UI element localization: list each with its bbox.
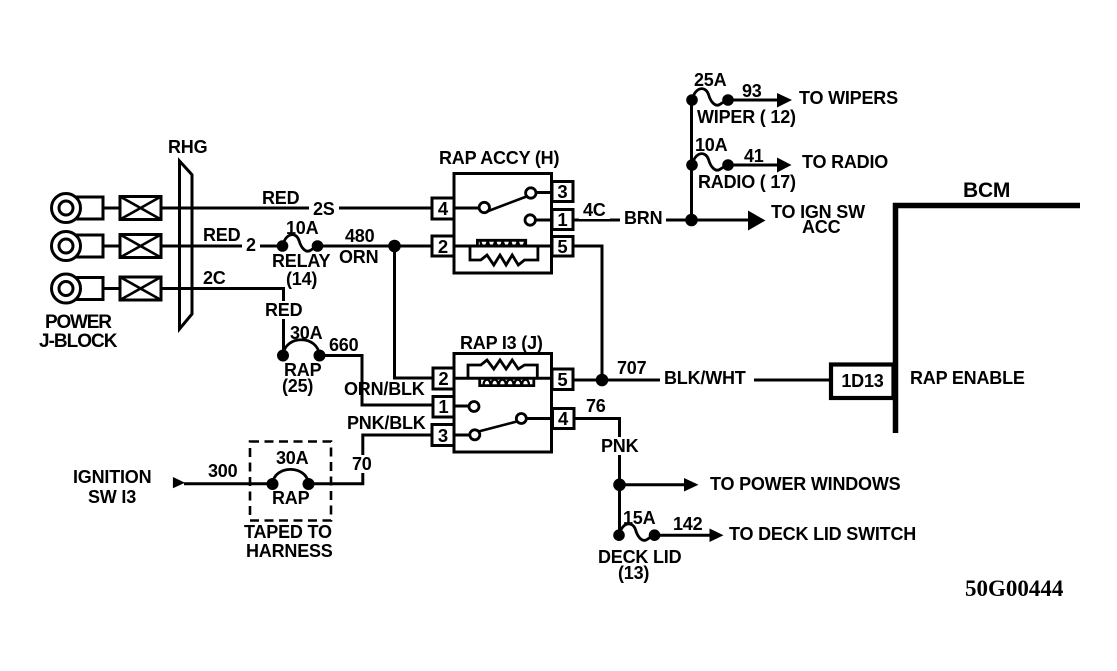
wire junction down to RAP I3 pin 2 <box>395 246 435 378</box>
label TO IGN SW ACC <box>771 203 865 221</box>
wire label RED (row 2) <box>203 226 240 244</box>
wire 93 and arrow to wipers <box>728 93 792 108</box>
fuse value 30A (taped) <box>276 449 308 467</box>
circuit label 2S <box>309 200 339 218</box>
pin 3 box of RAP I3 <box>432 425 454 446</box>
fuse name RAP (25) <box>284 361 321 379</box>
relay RAP I3 (J) outer box <box>454 354 552 453</box>
fuse value 10A (radio) <box>695 136 727 154</box>
circuit label 707 <box>617 359 646 377</box>
module label BCM <box>963 182 1010 200</box>
pin number 3 of RAP I3 <box>432 427 454 446</box>
ring terminal 3 of POWER J-BLOCK <box>52 274 104 303</box>
wire label PNK/BLK <box>347 414 426 432</box>
ring terminal 1 of POWER J-BLOCK <box>52 194 104 223</box>
connector RHG (parallelogram) <box>180 161 193 329</box>
wire 660 ORN/BLK: fuse to RAP I3 pin 1 <box>320 356 435 406</box>
splice S3 (crossed box) <box>120 277 161 300</box>
label IGNITION SW I3 <box>73 468 151 486</box>
pin 3 box of RAP ACCY <box>552 182 573 202</box>
wire label ORN <box>339 248 378 266</box>
fuse value 30A <box>290 324 322 342</box>
wire RED 2S: splice1 to RAP ACCY pin 4 <box>161 207 433 210</box>
relay name RAP ACCY (H) <box>439 149 559 167</box>
wire 707 BLK/WHT: RAP I3 pin 5 to 1D13 <box>573 379 831 382</box>
circuit label 300 <box>208 462 237 480</box>
pin 2 box of RAP ACCY <box>432 236 454 256</box>
wire label PNK <box>597 437 642 455</box>
wire RED 2: splice2 to fuse RELAY <box>161 245 283 248</box>
fuse 10A RELAY (14) <box>278 235 322 252</box>
circuit label 2C <box>203 269 226 287</box>
node junction PNK <box>615 480 625 490</box>
circuit label 660 <box>329 336 358 354</box>
relay coil and resistor inside RAP ACCY <box>454 240 552 265</box>
wire 480 ORN: fuse to RAP ACCY pin 2 <box>318 245 434 248</box>
circuit label 70 <box>348 455 376 473</box>
switch contacts inside RAP I3 <box>454 402 553 440</box>
fuse value 25A <box>694 71 726 89</box>
ignition feed arrow <box>173 477 185 488</box>
fuse 25A WIPER (12) <box>688 89 733 106</box>
wire label RED (row 1) <box>262 189 299 207</box>
label TO RADIO <box>802 153 888 171</box>
figure number 50G00444 <box>965 580 1063 598</box>
pin number 2 of RAP ACCY <box>432 238 454 257</box>
wire ring1 to splice1 <box>103 207 120 210</box>
wire RAP ACCY pin 5 down to 707 node <box>573 246 602 380</box>
fuse name RELAY (14) <box>272 252 330 270</box>
relay name RAP I3 (J) <box>460 334 543 352</box>
circuit label 4C <box>579 201 610 219</box>
fuse name WIPER (12) <box>697 108 796 126</box>
label TO DECK LID SWITCH <box>729 525 916 543</box>
label POWER J-BLOCK <box>45 314 111 332</box>
pin number 1 of RAP I3 <box>433 398 455 417</box>
pin 5 box of RAP ACCY <box>552 237 573 257</box>
wire 300: ignition arrow to taped fuse <box>184 482 273 485</box>
pin number 2 of RAP I3 <box>433 370 455 389</box>
pin number 3 of RAP ACCY <box>552 183 574 202</box>
label TO POWER WINDOWS <box>710 475 900 493</box>
wire and arrow to power windows <box>620 478 699 492</box>
wire junction up to fuse column <box>690 100 693 220</box>
pin number 4 of RAP I3 <box>552 410 574 429</box>
node junction BRN <box>687 215 697 225</box>
fuse name DECK LID (13) <box>598 548 681 566</box>
circuit label 76 <box>586 397 606 415</box>
fuse name RAP (taped) <box>272 489 309 507</box>
pin number 5 of RAP ACCY <box>552 238 574 257</box>
relay RAP ACCY (H) outer box <box>454 174 552 274</box>
circuit label 41 <box>744 147 764 165</box>
wire label ORN/BLK <box>344 380 425 398</box>
relay coil and resistor inside RAP I3 <box>454 360 552 386</box>
wire 70 PNK/BLK: taped fuse to RAP I3 pin 3 <box>309 435 433 484</box>
fuse 15A DECK LID (13) <box>615 524 659 541</box>
wire 4C BRN: RAP ACCY pin 1 to junction <box>573 219 692 222</box>
fuse value 15A <box>623 509 655 527</box>
switch contacts inside RAP ACCY <box>454 188 552 225</box>
circuit label 480 <box>345 227 374 245</box>
pin number 5 of RAP I3 <box>552 371 574 390</box>
connector label RHG <box>168 138 207 156</box>
wire label RED (vertical) <box>261 301 306 319</box>
node junction 480/ORN <box>390 241 400 251</box>
pin 5 box of RAP I3 <box>552 369 573 390</box>
ring terminal 2 of POWER J-BLOCK <box>52 232 104 261</box>
fuse value 10A <box>286 219 318 237</box>
fuse name RADIO (17) <box>698 173 796 191</box>
splice S2 (crossed box) <box>120 235 161 258</box>
wire ring3 to splice3 <box>103 287 120 290</box>
dashed box taped to harness <box>250 442 331 521</box>
circuit label 93 <box>742 82 762 100</box>
wire label BLK/WHT <box>660 369 754 387</box>
wire and arrow to IGN SW ACC <box>692 211 766 231</box>
pin number 4 of RAP ACCY <box>432 200 454 219</box>
wire 41 and arrow to radio <box>728 158 792 173</box>
fuse 30A RAP (25) <box>279 340 325 360</box>
label TAPED TO HARNESS <box>244 523 332 541</box>
splice S1 (crossed box) <box>120 197 161 220</box>
module BCM outline <box>896 206 1081 434</box>
fuse 30A RAP taped to harness <box>268 469 313 488</box>
pin 2 box of RAP I3 <box>433 368 454 389</box>
wire ring2 to splice2 <box>103 245 120 248</box>
wire 142 and arrow to deck lid switch <box>655 529 724 543</box>
pin 4 box of RAP I3 <box>553 409 575 429</box>
circuit label 2 <box>242 236 260 254</box>
pin 1 box of RAP I3 <box>433 397 454 418</box>
wire 2C: splice3 right then down <box>161 289 284 356</box>
circuit label 142 <box>673 515 702 533</box>
pin 4 box of RAP ACCY <box>432 198 454 219</box>
pin number 1 of RAP ACCY <box>552 211 574 230</box>
pin 1 box of RAP ACCY <box>552 210 573 230</box>
node junction 707 <box>597 375 607 385</box>
wire 76 PNK: RAP I3 pin 4 down <box>574 419 620 536</box>
label RAP ENABLE <box>910 369 1025 387</box>
connector terminal 1D13 <box>831 365 894 399</box>
label TO WIPERS <box>799 89 898 107</box>
terminal label 1D13 <box>836 372 889 390</box>
fuse 10A RADIO (17) <box>688 154 733 171</box>
wire label BRN <box>620 209 666 227</box>
